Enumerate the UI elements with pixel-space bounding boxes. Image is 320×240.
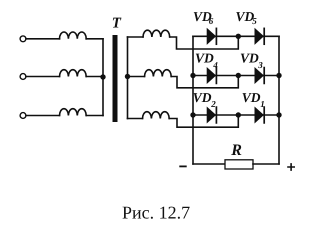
diode VD3: [255, 68, 263, 83]
svg-text:4: 4: [212, 60, 218, 70]
diode VD5: [255, 29, 263, 44]
wire minus bus to resistor: [193, 163, 225, 165]
svg-text:3: 3: [257, 60, 263, 70]
terminal X3 (phase C input): [20, 113, 26, 119]
wire cathode bus (left, minus): [192, 36, 194, 164]
svg-text:Рис. 12.7: Рис. 12.7: [122, 203, 190, 223]
svg-text:6: 6: [209, 16, 214, 26]
diode VD6: [207, 29, 215, 44]
wire secondary bus to winding L6: [128, 118, 143, 120]
node phase a tap: [236, 34, 241, 39]
svg-text:R: R: [230, 142, 242, 159]
svg-text:5: 5: [252, 16, 257, 26]
node secondary neutral junction: [125, 74, 130, 79]
primary winding L2: [60, 70, 87, 77]
terminal X2 (phase B input): [20, 74, 26, 80]
wire L6 to node of VD2-VD1: [169, 115, 238, 127]
primary winding L3: [60, 109, 87, 116]
diode VD1: [255, 108, 263, 123]
svg-text:VD: VD: [195, 51, 214, 66]
wire phase A to primary winding: [26, 38, 60, 40]
node primary neutral junction: [100, 74, 105, 79]
svg-text:VD: VD: [240, 51, 259, 66]
secondary winding L6 (phase c): [143, 112, 170, 119]
svg-text:2: 2: [210, 99, 216, 109]
node row2 left bus junction: [190, 73, 195, 78]
wire phase B to primary winding: [26, 76, 60, 78]
secondary winding L4 (phase a): [143, 30, 170, 37]
wire phase C to primary winding: [26, 115, 60, 117]
terminal X1 (phase A input): [20, 36, 26, 42]
wire L4 to node of VD6-VD5: [170, 36, 239, 49]
wire anode bus (right, plus): [278, 36, 280, 164]
node phase b tap: [236, 73, 241, 78]
minus terminal label: [180, 165, 186, 167]
wire L1 to primary bus: [86, 38, 103, 40]
svg-text:1: 1: [260, 99, 265, 109]
wire diode row 2: [193, 75, 279, 77]
svg-text:VD: VD: [242, 90, 261, 105]
plus terminal label: [288, 164, 294, 170]
wire L5 to node of VD4-VD3: [171, 76, 238, 88]
resistor R: [225, 160, 253, 169]
wire secondary bus to winding L5: [128, 76, 145, 78]
node row3 right bus junction: [276, 112, 281, 117]
node row3 left bus junction: [190, 112, 195, 117]
wire secondary neutral bus: [127, 37, 129, 119]
diode VD4: [207, 68, 215, 83]
wire L2 to primary bus: [86, 76, 103, 78]
wire resistor to plus bus: [253, 163, 279, 165]
secondary winding L5 (phase b): [145, 70, 172, 77]
transformer core T: [113, 35, 118, 122]
primary winding L1: [60, 32, 87, 39]
svg-text:T: T: [112, 16, 122, 32]
svg-text:VD: VD: [193, 90, 212, 105]
wire L3 to primary bus: [86, 115, 103, 117]
node row2 right bus junction: [276, 73, 281, 78]
wire diode row 1: [193, 35, 279, 37]
wire secondary bus to winding L4: [128, 36, 144, 38]
diode VD2: [207, 108, 215, 123]
wire diode row 3: [193, 114, 279, 116]
wire primary neutral bus: [102, 39, 104, 116]
node phase c tap: [236, 112, 241, 117]
